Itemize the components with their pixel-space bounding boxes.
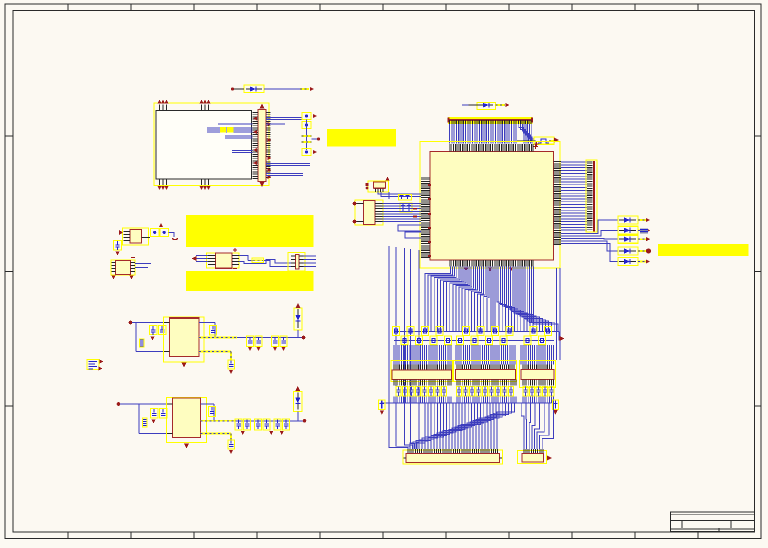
highlight bar A (186, 215, 314, 247)
U2 top-right pin marker (533, 144, 538, 149)
connector J2 right pins (375, 204, 383, 222)
jumper W2 marker (554, 138, 559, 143)
header J3 pins (450, 120, 531, 124)
capacitor C21 (209, 407, 216, 417)
net label bus upper (394, 332, 559, 341)
bottom connector J6 marker (547, 455, 552, 460)
IC U3 input wires (196, 256, 208, 262)
regulator U6 top edge (170, 317, 200, 319)
regulator U6 right wires (199, 323, 215, 338)
crystal circuit X1 selection box (123, 228, 149, 245)
diode D6 (618, 247, 646, 255)
resistor R2 (140, 339, 145, 347)
bus entry markers (99, 360, 104, 371)
output wire 2 (236, 420, 303, 422)
capacitor C2 (302, 122, 311, 129)
ground rail (381, 402, 552, 404)
capacitor row circuit2 markers (241, 431, 284, 435)
diode D2 (469, 103, 496, 110)
IC U5 bottom markers (112, 276, 134, 280)
capacitor C14 (247, 336, 254, 347)
regulator U6 body (170, 318, 200, 357)
wire bus left columns (389, 246, 419, 403)
IC U3 top marker (233, 248, 237, 252)
IC U4 right pins (299, 256, 304, 267)
vertical wires right columns (557, 268, 561, 360)
regulator U6 bottom marker (182, 363, 187, 368)
oscillator Y1 top marker (385, 176, 389, 180)
highlight bar top (327, 129, 396, 147)
IC U5 top marker (131, 257, 135, 259)
FPC connector right pins (266, 113, 271, 178)
header J3 body line (449, 119, 533, 121)
capacitor C22 (228, 440, 235, 449)
resistor network RN1 selection box (391, 361, 453, 382)
wire U3 to U4 (239, 256, 291, 267)
diode D2 highlighted stub (496, 104, 506, 106)
bottom border zone ticks (68, 532, 698, 539)
net label W3 (252, 258, 264, 263)
LCD module U1 body (156, 111, 252, 180)
diode D7 marker (646, 259, 650, 263)
regulator circuit 2 input marker (117, 402, 121, 406)
net labels upper row (392, 327, 551, 336)
jumper W1 highlighted (302, 136, 318, 142)
resistor R3 (143, 418, 148, 427)
capacitor row circuit2 (235, 419, 289, 430)
capacitor C1 marker (313, 114, 317, 118)
diode D1 right marker (310, 87, 314, 91)
wire pair from J1 right top (266, 118, 302, 120)
FPC connector left pins (253, 113, 259, 179)
decoupling capacitor row (396, 387, 554, 397)
net labels lower row (401, 336, 546, 345)
net label bus marker (560, 336, 565, 341)
capacitor C11 (150, 326, 158, 336)
regulator U7 bottom marker (184, 444, 189, 449)
IC U3 body (216, 253, 233, 268)
diode D7 (618, 258, 646, 266)
MCU U2 selection box (420, 142, 560, 269)
MCU U2 left pins (421, 178, 430, 258)
IC U3 right pins (232, 256, 239, 265)
output wire to caps (237, 337, 302, 339)
diode D1 highlighted stub (300, 88, 309, 90)
circuit1 output marker (302, 336, 306, 340)
capacitor C10 marker (115, 251, 119, 255)
IC U4 left pins (291, 256, 296, 267)
jumper W2 junction marker (535, 142, 539, 146)
LCD module U1 selection box (154, 103, 269, 186)
capacitor C16 (272, 336, 279, 347)
FPC connector bottom marker (260, 182, 265, 187)
resistor R1 stub (640, 229, 648, 234)
resistor network RN3 selection box (520, 361, 556, 388)
bottom connector J6 pins (524, 449, 543, 454)
regulator U7 body (173, 398, 201, 438)
highlighted ground stub 2 (201, 434, 232, 441)
capacitor C10 (114, 241, 122, 251)
resistor network RN3 pins (523, 365, 552, 371)
MCU U2 left pin markers (428, 185, 431, 256)
bottom connector J5 body (406, 454, 500, 463)
crystal top marker (159, 223, 163, 227)
resistor network RN2 body (456, 370, 516, 380)
crystal right hook wire (169, 232, 179, 239)
LCD module top pins (160, 105, 209, 111)
wires U2 left lower (398, 225, 421, 238)
left border zone ticks (5, 136, 14, 406)
highlight bar B (186, 271, 314, 291)
diode D1 (234, 85, 264, 93)
module inner wire pair B (225, 136, 253, 138)
module inner wire D (218, 123, 253, 125)
highlight bar right (658, 244, 749, 256)
resistor network RN2 selection box (454, 361, 517, 382)
right border zone ticks (755, 136, 762, 406)
capacitor C8 (151, 229, 160, 237)
diode D1 output wire (264, 88, 300, 90)
wire pair from J1 lower (266, 164, 310, 166)
regulator U6 selection box (164, 317, 205, 362)
bus entry symbol (87, 360, 99, 370)
bottom connector J6 selection box (518, 451, 547, 464)
diode D2 right marker (505, 103, 509, 107)
capacitor C22 marker (229, 450, 233, 454)
J2 bus pin markers (413, 209, 417, 217)
IC U5 left pins (112, 263, 116, 272)
circuit2 output marker (303, 419, 307, 423)
IC U4 selection box (288, 253, 305, 272)
diode D9 top marker (295, 386, 300, 391)
connector J2 left pins (357, 204, 364, 222)
net label boxes on bus A (220, 127, 234, 132)
highlighted output wire (199, 337, 237, 339)
capacitor C19 marker (152, 420, 156, 424)
bottom connector J5 selection box (403, 450, 503, 464)
capacitor C16 markers (273, 347, 286, 351)
regulator U7 right wires (201, 404, 215, 421)
capacitor C18 marker (229, 370, 233, 374)
LCD module top pin markers (158, 100, 211, 104)
IC U5 output wires (135, 264, 151, 268)
connector J4 pins (587, 162, 593, 229)
rail right power symbol (553, 400, 559, 415)
highlighted ground stub (199, 352, 231, 361)
resistor network RN1 body (392, 370, 452, 380)
top border zone ticks (68, 4, 698, 11)
connector J4 body (593, 161, 595, 232)
capacitor pair C6 C7 (400, 203, 412, 212)
bottom connector J5 pins (408, 449, 497, 454)
regulator U7 left pins (167, 404, 173, 434)
bottom connector J5 side stubs (404, 457, 503, 459)
LCD module bottom pin markers (158, 186, 211, 190)
regulator circuit 1 input wire (132, 323, 170, 352)
capacitor C3 marker (313, 150, 317, 154)
IC U3 input marker (192, 256, 197, 261)
header J3 end caps (448, 118, 534, 123)
diode D9 vertical (294, 392, 303, 421)
diode D4 (618, 226, 646, 234)
FPC connector top marker (260, 104, 265, 109)
capacitor C1 (302, 113, 311, 120)
jumper W2 highlighted (517, 137, 554, 144)
wire bus U2 to J4 (561, 162, 587, 230)
wire bus labels to RN (394, 345, 553, 365)
FPC connector J1 (258, 110, 266, 182)
capacitor C14 markers (248, 347, 261, 351)
bottom connector J6 body (522, 454, 544, 463)
diode D3 marker (646, 218, 650, 222)
wire bus rail to bottom connectors (389, 403, 553, 449)
module inner wire bus A (207, 128, 253, 132)
diode D4 marker (646, 228, 650, 232)
connector J4 selection box (586, 160, 597, 232)
jumper W1 marker (317, 138, 320, 141)
IC U5 right pins (131, 263, 136, 272)
diode D2 input wire (462, 104, 469, 106)
wire from J1 right (266, 123, 285, 125)
oscillator Y1 left markers (365, 183, 368, 190)
regulator circuit 2 input wire (120, 404, 173, 434)
header J3 selection box (448, 117, 533, 124)
rail left power symbol (379, 400, 386, 415)
wire bus U2 bottom staircase (425, 267, 558, 332)
diode D3 (618, 216, 646, 224)
capacitor C11 marker (151, 337, 155, 341)
IC U5 body (116, 261, 131, 275)
wires caps to rail (394, 397, 553, 404)
MCU U2 top pins (450, 144, 533, 152)
MCU U2 body (430, 152, 554, 261)
diode D8 top marker (296, 303, 301, 308)
module inner wire pair C (232, 151, 253, 153)
capacitor C3 (302, 149, 311, 156)
regulator U7 selection box (167, 398, 207, 443)
IC U5 selection box (111, 260, 135, 275)
connector J2 body (364, 201, 376, 225)
diode D1 left marker (231, 87, 234, 90)
crystal X1 left pins (124, 232, 131, 241)
capacitor C17 (280, 336, 287, 347)
resistor network RN2 pins (457, 365, 514, 371)
wire bus J3 to U2 top (450, 124, 536, 144)
LCD module bottom pins (160, 179, 209, 185)
highlighted output wire 2 (201, 420, 237, 422)
wire bus J2 to U2 (383, 204, 422, 222)
vertical link wire (306, 120, 308, 151)
IC U3 left pins (208, 256, 216, 265)
oscillator output wires (378, 192, 421, 199)
regulator circuit 1 input marker (129, 321, 133, 325)
connector J2 selection box (355, 200, 383, 225)
wire pair from J1 bottom (266, 174, 303, 176)
crystal body right stub (142, 237, 151, 239)
MCU U2 bottom pin markers (464, 267, 513, 271)
diode D6 marker (646, 248, 651, 253)
capacitor C9 (160, 229, 169, 237)
title block (671, 512, 755, 532)
diode D8 vertical (294, 308, 302, 338)
connector J2 left markers (353, 202, 357, 224)
IC U4 body (296, 255, 300, 270)
regulator U6 left pins (164, 323, 170, 352)
capacitor C19 (151, 409, 159, 419)
IC U4 output wires (304, 256, 317, 267)
IC U3 bottom marker (233, 268, 237, 270)
MCU U2 bottom pins (450, 260, 533, 267)
capacitor C15 (255, 336, 262, 347)
net label bus lower (394, 340, 554, 342)
diode D5 marker (646, 237, 650, 241)
RN bottom pins (394, 380, 553, 386)
capacitor C13 (210, 326, 217, 336)
capacitor C18 (228, 360, 235, 369)
MCU U2 right pins (554, 162, 562, 245)
capacitor C20 (160, 409, 168, 419)
resistor network RN3 body (521, 370, 554, 380)
wire fan to diode array (561, 220, 618, 262)
capacitor C12 (159, 326, 167, 335)
oscillator Y1 (368, 181, 389, 192)
diode D5 (618, 235, 646, 243)
crystal X1 body (130, 230, 142, 244)
crystal X1 left marker (119, 230, 123, 235)
FPC connector side markers (253, 117, 272, 180)
capacitor pair C4 C5 (399, 195, 412, 201)
resistor network RN1 pins (394, 365, 451, 371)
IC U3 selection box (207, 253, 240, 268)
